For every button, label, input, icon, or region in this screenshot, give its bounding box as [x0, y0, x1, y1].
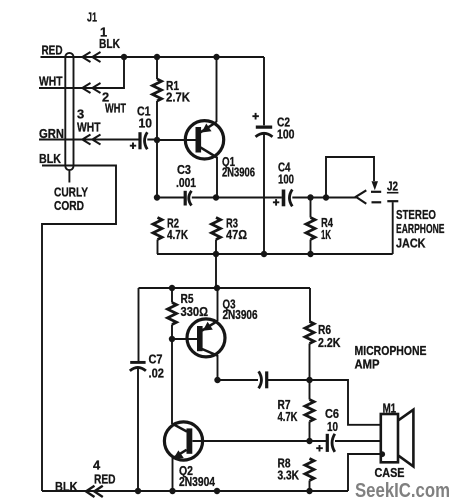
svg-text:330Ω: 330Ω [181, 304, 209, 319]
resistor R6 [305, 322, 314, 344]
wire BLK to left rail [42, 166, 116, 492]
svg-text:GRN: GRN [39, 126, 64, 141]
junction dot rail288 Q3 [214, 285, 220, 291]
microphone M1 [381, 414, 398, 462]
resistor R8 [305, 459, 314, 481]
junction dot top rail 2 [154, 54, 160, 60]
svg-text:RED: RED [42, 42, 63, 57]
arrow chevrons wire 3 [82, 135, 100, 145]
svg-text:C7: C7 [149, 352, 163, 367]
arrow chevrons wire 2 [82, 83, 100, 93]
svg-text:CORD: CORD [54, 198, 84, 213]
jack J2 sleeve [387, 200, 398, 202]
junction dot node y197 R4 [307, 194, 313, 200]
jack J2 tip contact [356, 190, 367, 203]
transistor Q3 2N3906 [187, 319, 225, 357]
capacitor C2 [263, 57, 265, 254]
svg-text:.02: .02 [149, 365, 165, 380]
svg-text:2N3904: 2N3904 [179, 474, 216, 489]
svg-text:10: 10 [327, 419, 338, 434]
capacitor C7 [130, 361, 145, 364]
svg-text:BLK: BLK [39, 151, 62, 166]
wire RED (pin 1) top rail [41, 56, 265, 58]
svg-text:4.7K: 4.7K [278, 409, 299, 424]
junction dot y380 R6 [306, 377, 312, 383]
jack J2 arrow [372, 181, 379, 190]
junction dot C1/R1 [154, 137, 160, 143]
junction dot node y197 jack [323, 194, 329, 200]
capacitor C1 [138, 132, 141, 149]
junction dot rail bottom Q2 [169, 488, 175, 494]
svg-text:.001: .001 [176, 175, 196, 190]
resistor R1 [153, 79, 162, 101]
svg-text:2N3906: 2N3906 [222, 165, 255, 180]
junction dot rail bottom R8 [306, 488, 312, 494]
junction dot y380 Q3 [214, 377, 220, 383]
junction dot y441 R7 [306, 438, 312, 444]
junction dot rail254 C2 [261, 251, 267, 257]
junction dot rail288 R5 [169, 285, 175, 291]
transistor Q1 2N3906 [185, 121, 223, 159]
svg-text:100: 100 [278, 172, 294, 187]
svg-text:2N3906: 2N3906 [223, 307, 258, 322]
svg-text:RED: RED [94, 472, 116, 487]
wire GRN (pin 3) [39, 139, 157, 141]
svg-text:3.3K: 3.3K [278, 468, 300, 483]
resistor R5 [168, 303, 177, 325]
svg-text:EARPHONE: EARPHONE [396, 221, 445, 236]
capacitor C7 branch wire [137, 288, 140, 491]
wire rail y288 [139, 287, 311, 289]
svg-text:J2: J2 [387, 179, 398, 194]
svg-text:1K: 1K [321, 227, 331, 242]
jack J2 wiring [326, 157, 374, 198]
capacitor C3 [184, 191, 187, 206]
junction dot rail bottom mid [214, 488, 220, 494]
connector J1 curly-cord oval [65, 53, 73, 183]
svg-text:JACK: JACK [396, 236, 426, 251]
svg-text:AMP: AMP [355, 357, 380, 372]
arrow chevrons wire 1 [82, 52, 100, 62]
svg-text:BLK: BLK [99, 36, 121, 51]
svg-text:4.7K: 4.7K [167, 227, 189, 242]
svg-text:WHT: WHT [105, 101, 126, 116]
capacitor C6 [193, 440, 381, 442]
resistor R7 [305, 400, 314, 422]
arrow chevrons wire 4 [86, 486, 103, 497]
svg-text:2.2K: 2.2K [318, 335, 341, 350]
wire WHT (pin 2) [39, 57, 124, 88]
svg-text:WHT: WHT [77, 120, 101, 135]
jack J2 ring dash [372, 201, 382, 203]
junction dot rail254 R3 [213, 251, 219, 257]
svg-text:J1: J1 [87, 10, 97, 25]
svg-text:4: 4 [93, 457, 101, 472]
svg-text:2.7K: 2.7K [166, 90, 191, 105]
junction dot node y197 mid [213, 194, 219, 200]
junction dot node y197 left [154, 194, 160, 200]
wire bottom rail [42, 490, 348, 492]
svg-text:10: 10 [139, 116, 153, 131]
transistor Q2 2N3904 [164, 422, 202, 460]
jack J2 tip dash [371, 191, 381, 193]
resistor R2 [153, 218, 162, 240]
svg-text:SeekIC.com: SeekIC.com [355, 480, 450, 502]
wire Q2 collector to Q3 base [171, 339, 173, 424]
coupling capacitor [259, 371, 262, 388]
wire y380 collector node [218, 380, 381, 425]
svg-text:WHT: WHT [39, 74, 63, 89]
junction dot Q3 base [169, 336, 175, 342]
svg-text:M1: M1 [383, 400, 397, 415]
resistor R4 [306, 218, 315, 240]
junction dot rail bottom C7 [135, 488, 141, 494]
junction dot top rail 3 [213, 54, 219, 60]
svg-text:BLK: BLK [55, 479, 78, 494]
capacitor C4 [282, 190, 286, 207]
svg-text:STEREO: STEREO [396, 207, 436, 222]
junction dot top rail 1 [121, 54, 127, 60]
wire M1 bottom to ground [348, 454, 380, 491]
resistor R3 [212, 218, 221, 240]
svg-text:100: 100 [277, 127, 295, 142]
wire common rail y254 [157, 253, 393, 255]
svg-text:CASE: CASE [375, 465, 405, 480]
svg-text:47Ω: 47Ω [226, 227, 247, 242]
wire mid node [157, 197, 356, 199]
junction dot rail254 R4 [307, 251, 313, 257]
